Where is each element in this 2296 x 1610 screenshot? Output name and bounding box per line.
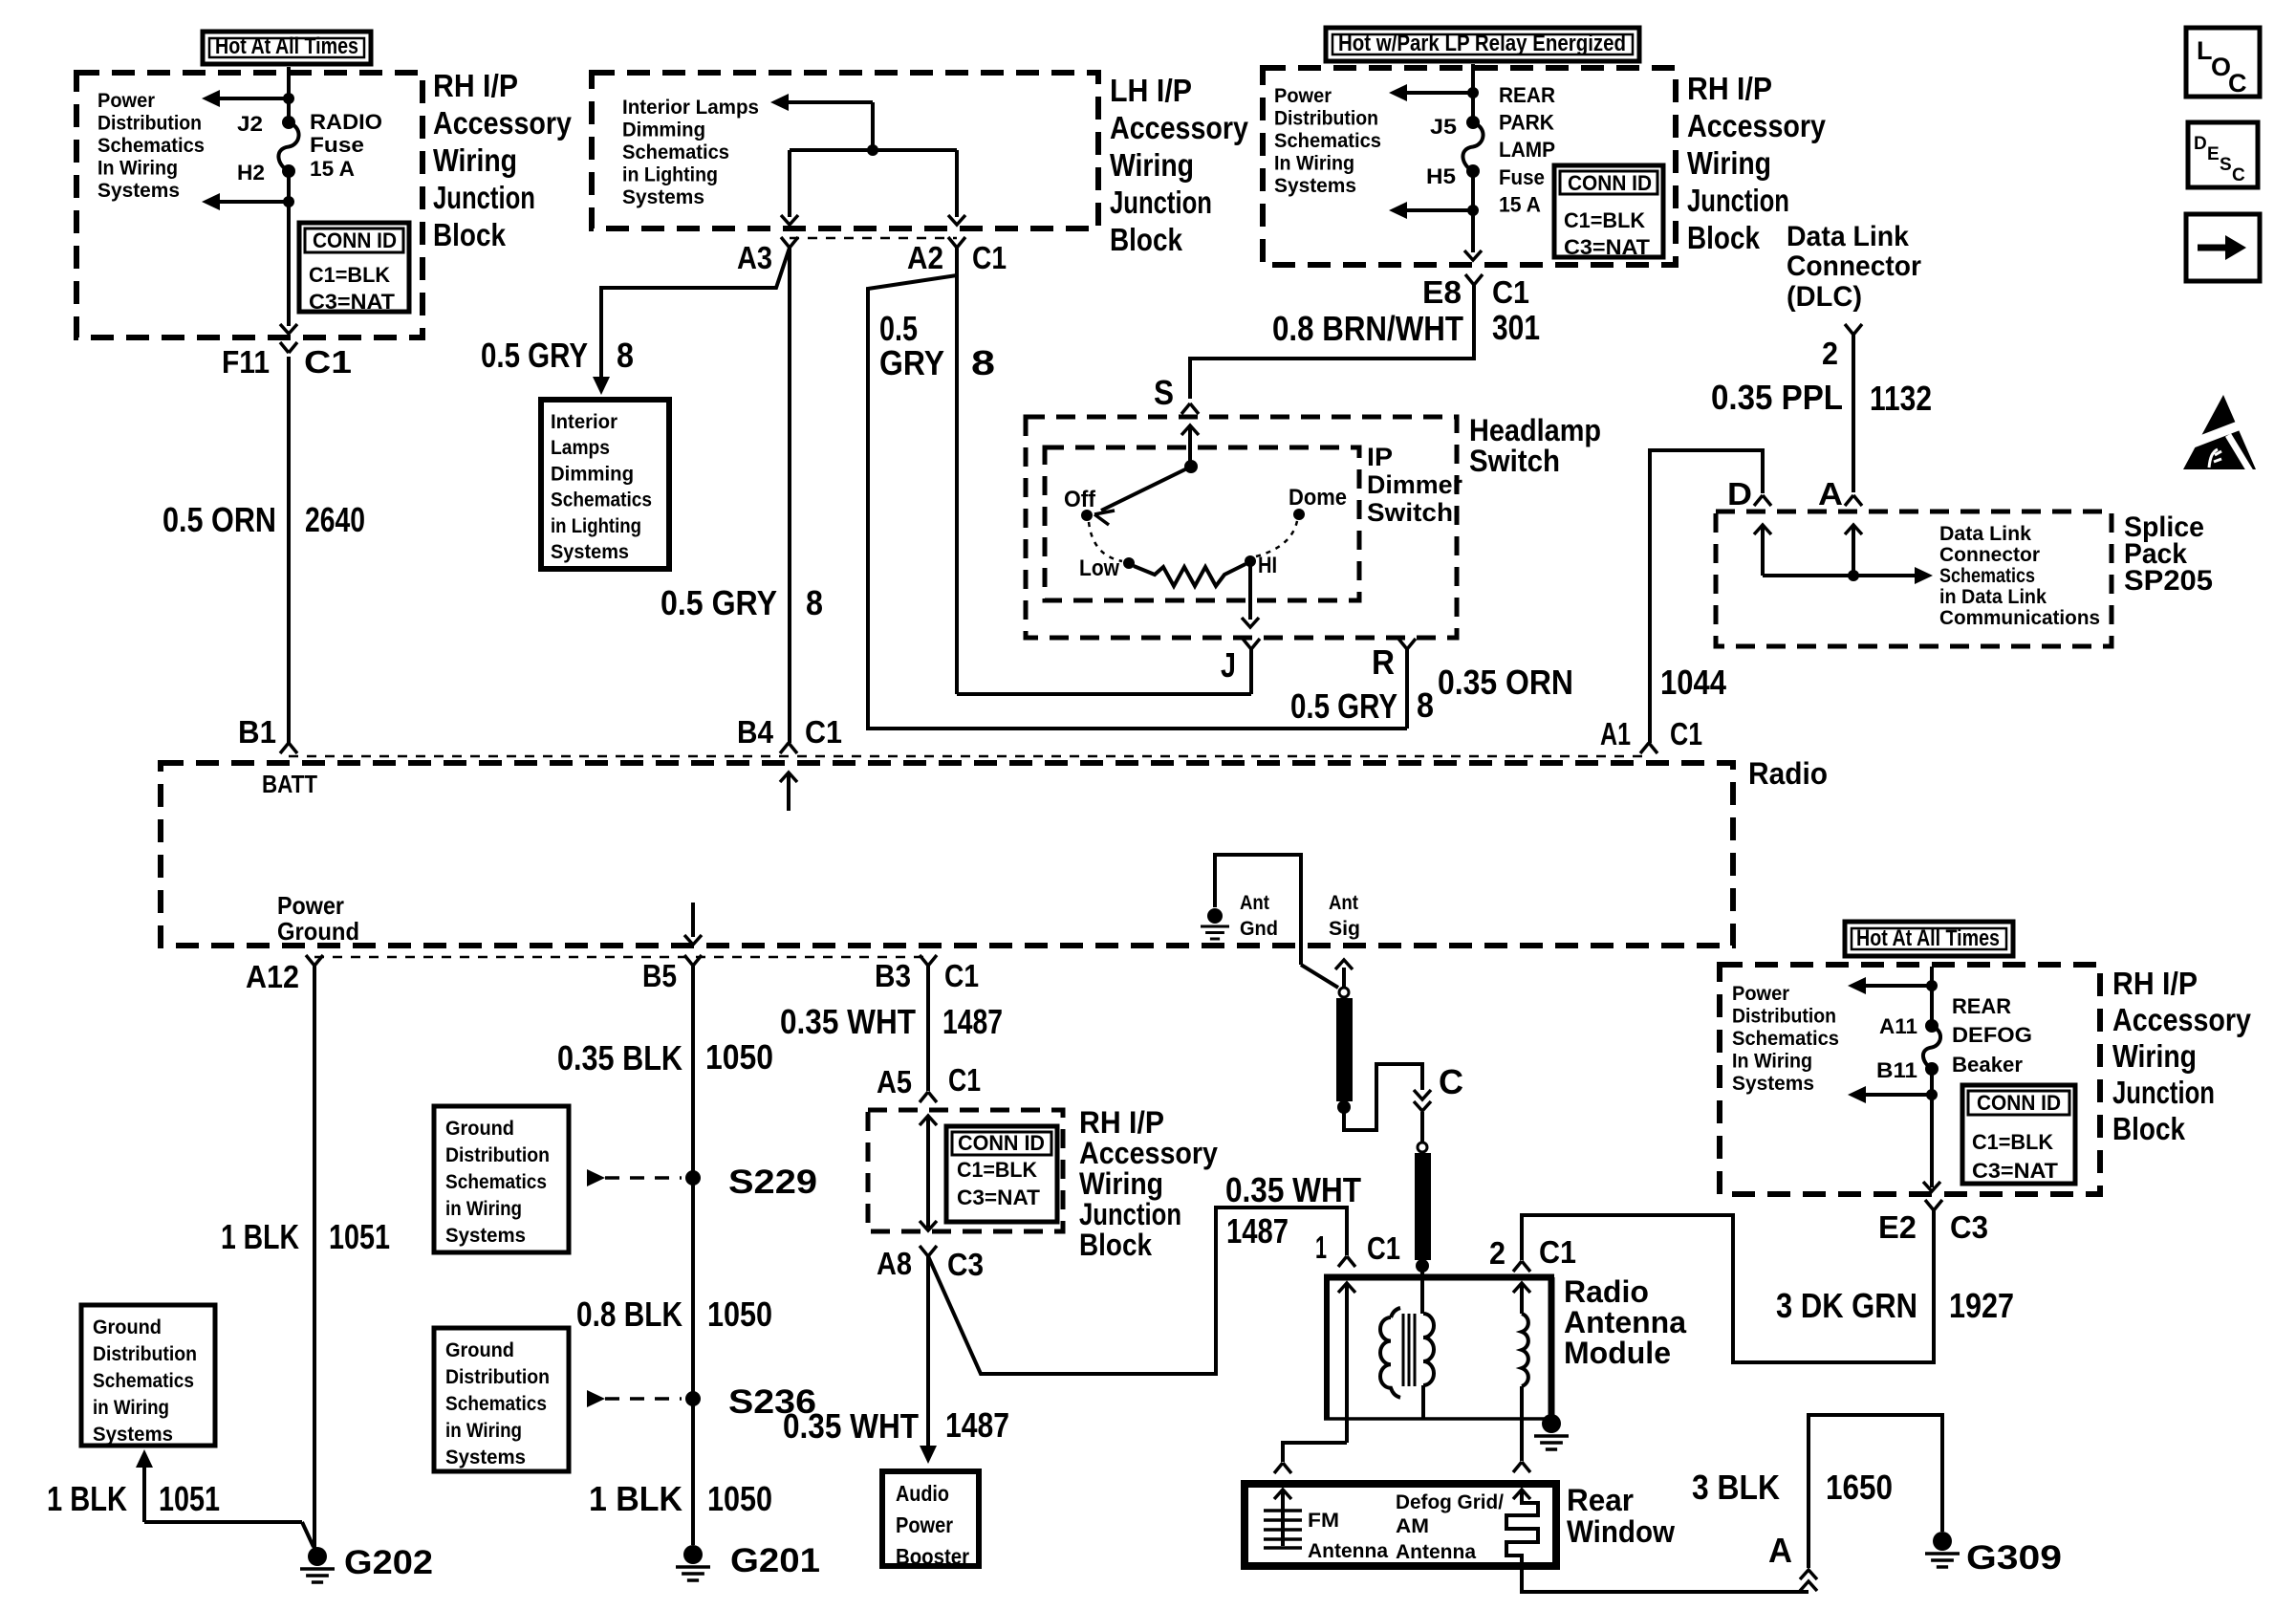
svg-text:C1: C1: [304, 344, 352, 380]
svg-text:Block: Block: [433, 217, 507, 252]
svg-text:A1: A1: [1600, 716, 1631, 751]
connector 1 C1 (radio antenna module): [1338, 1256, 1347, 1267]
connector A2 C1: [948, 237, 957, 248]
svg-text:Schematics: Schematics: [1939, 565, 2035, 587]
svg-text:RADIO: RADIO: [310, 110, 382, 134]
defog grid element: [1513, 1490, 1530, 1499]
IP dimmer switch inner dashed box: [1045, 447, 1359, 600]
svg-text:Accessory: Accessory: [1079, 1136, 1218, 1170]
wire coax 2 into radio antenna module: [1420, 1266, 1424, 1314]
svg-text:Distribution: Distribution: [93, 1343, 197, 1365]
svg-text:H2: H2: [237, 161, 265, 185]
svg-text:J: J: [1221, 645, 1236, 685]
svg-text:1051: 1051: [329, 1217, 390, 1256]
terminal Low: [1123, 557, 1135, 569]
svg-text:C3=NAT: C3=NAT: [309, 290, 396, 314]
svg-text:(DLC): (DLC): [1787, 281, 1862, 313]
svg-text:RH I/P: RH I/P: [433, 68, 518, 103]
svg-text:BATT: BATT: [262, 770, 317, 798]
fuse: REAR PARK LAMP Fuse 15 A: [1466, 116, 1480, 129]
svg-text:G202: G202: [344, 1544, 433, 1581]
connector A5 C1: [920, 1092, 928, 1102]
svg-text:0.8 BRN/WHT: 0.8 BRN/WHT: [1272, 309, 1463, 348]
svg-text:Ground: Ground: [93, 1316, 162, 1338]
header box: Hot At All Times (left): [203, 32, 371, 64]
svg-text:Radio: Radio: [1748, 756, 1828, 791]
svg-text:Ground: Ground: [277, 917, 359, 946]
svg-text:D: D: [1727, 476, 1752, 511]
svg-text:1050: 1050: [705, 1037, 773, 1077]
radio dashed box: [161, 763, 1733, 946]
svg-text:E8: E8: [1422, 274, 1462, 310]
svg-text:1487: 1487: [942, 1002, 1003, 1041]
wiper junction node: [1184, 460, 1198, 473]
svg-text:1487: 1487: [1226, 1211, 1289, 1251]
svg-text:C3: C3: [947, 1247, 984, 1282]
svg-text:1487: 1487: [945, 1405, 1009, 1445]
connector 2 C1 (antenna module to rear defog): [1513, 1261, 1522, 1272]
svg-text:0.35 ORN: 0.35 ORN: [1438, 663, 1573, 702]
svg-text:C3=NAT: C3=NAT: [1564, 235, 1651, 259]
arrow to Power Distribution (top left): [220, 97, 289, 100]
svg-text:0.5 GRY: 0.5 GRY: [661, 583, 777, 622]
svg-text:Systems: Systems: [445, 1447, 526, 1469]
svg-text:A11: A11: [1879, 1014, 1917, 1038]
wire: Ant Sig diagonal to coax: [1301, 965, 1338, 988]
svg-text:Data Link: Data Link: [1787, 221, 1909, 252]
svg-text:C1=BLK: C1=BLK: [309, 263, 390, 287]
entry arrow below 2 C1 / wire to coil: [1513, 1283, 1530, 1293]
svg-text:Power: Power: [1732, 983, 1789, 1005]
svg-text:Fuse: Fuse: [1499, 165, 1545, 189]
svg-text:in Lighting: in Lighting: [551, 515, 641, 537]
svg-text:Fuse: Fuse: [310, 133, 364, 157]
RH I/P accessory junction block (defog) dashed box: [1720, 965, 2100, 1194]
splice S229: [685, 1170, 701, 1186]
RH I/P accessory junction block (park lamp) dashed box: [1263, 68, 1676, 265]
svg-text:CONN ID: CONN ID: [1977, 1091, 2061, 1115]
svg-text:Systems: Systems: [93, 1424, 173, 1446]
svg-text:in Wiring: in Wiring: [445, 1198, 522, 1220]
wire: RADIO fuse feed vertical: [287, 67, 291, 122]
svg-text:Schematics: Schematics: [93, 1370, 194, 1392]
connector A1 C1 (radio): [1640, 743, 1649, 753]
svg-text:Distribution: Distribution: [97, 113, 202, 135]
entry arrow below 1 C1 / wire to FM antenna: [1338, 1283, 1355, 1293]
svg-text:CONN ID: CONN ID: [313, 228, 397, 252]
svg-text:0.5 GRY: 0.5 GRY: [1290, 686, 1397, 726]
svg-text:A2: A2: [907, 240, 943, 275]
svg-text:Schematics: Schematics: [622, 141, 729, 163]
Ant Gnd ground symbol: [1207, 908, 1223, 924]
svg-text:3 BLK: 3 BLK: [1692, 1468, 1780, 1507]
svg-text:1 BLK: 1 BLK: [47, 1479, 127, 1518]
wire: A12 to G202 (1 BLK 1051): [313, 966, 316, 1549]
icon: forward arrow: [2186, 214, 2260, 281]
wire: defog grid to A (3 BLK 1650): [1522, 1570, 1809, 1592]
wire bridge between A3 and A2 risers: [790, 148, 957, 152]
svg-text:1050: 1050: [707, 1479, 772, 1518]
connector E2 C3: [1925, 1200, 1934, 1210]
svg-text:A5: A5: [877, 1064, 912, 1099]
svg-text:Wiring: Wiring: [1110, 147, 1194, 183]
svg-text:C1=BLK: C1=BLK: [957, 1158, 1037, 1182]
CONN ID table (left): [299, 223, 409, 312]
arrow left (defog bottom): [1860, 1093, 1932, 1097]
svg-text:Gnd: Gnd: [1240, 918, 1278, 940]
svg-text:0.5: 0.5: [879, 309, 918, 348]
svg-text:C1: C1: [944, 958, 979, 993]
connector A (splice pack): [1845, 495, 1853, 506]
svg-text:C3=NAT: C3=NAT: [957, 1186, 1041, 1209]
svg-text:Low: Low: [1079, 555, 1119, 581]
reference box: Interior Lamps Dimming Schematics in Lighting Systems: [541, 400, 669, 569]
svg-text:Junction: Junction: [433, 180, 535, 215]
svg-text:Block: Block: [1110, 222, 1183, 257]
svg-text:LH I/P: LH I/P: [1110, 73, 1192, 108]
wire: 0.5 ORN 2640 from F11 to radio B1: [287, 357, 291, 743]
terminal HI: [1245, 555, 1256, 567]
svg-text:0.35 PPL: 0.35 PPL: [1711, 378, 1843, 417]
svg-text:Dimming: Dimming: [551, 463, 634, 485]
wire: 3 DK GRN 1927 from E2 to antenna module: [1522, 1210, 1934, 1362]
svg-text:Dimmer: Dimmer: [1367, 470, 1462, 499]
svg-text:Distribution: Distribution: [1732, 1006, 1836, 1028]
svg-text:CONN ID: CONN ID: [958, 1131, 1045, 1155]
wire: A8 to audio power booster: [926, 1256, 930, 1446]
circuit breaker: REAR DEFOG: [1925, 1019, 1939, 1033]
svg-text:in Wiring: in Wiring: [93, 1397, 169, 1419]
svg-text:Power: Power: [896, 1512, 953, 1537]
svg-text:DEFOG: DEFOG: [1952, 1023, 2032, 1047]
connector (defog grid): [1513, 1462, 1522, 1472]
junction node in dimming block: [867, 144, 878, 156]
svg-text:Block: Block: [1079, 1228, 1152, 1262]
svg-text:Ground: Ground: [445, 1339, 514, 1361]
arrow left (defog top): [1860, 984, 1932, 988]
svg-text:Systems: Systems: [97, 180, 180, 202]
svg-text:15 A: 15 A: [310, 157, 355, 181]
svg-text:HI: HI: [1258, 553, 1277, 578]
exit arrow to E8: [1471, 212, 1475, 252]
arrow left (park bottom): [1401, 208, 1473, 212]
terminal Dome: [1293, 509, 1305, 520]
RH I/P accessory junction block (left) dashed box: [76, 73, 422, 337]
svg-text:1050: 1050: [707, 1295, 772, 1334]
svg-text:in Lighting: in Lighting: [622, 164, 718, 186]
svg-text:C1: C1: [805, 714, 842, 750]
svg-text:Schematics: Schematics: [1732, 1028, 1839, 1050]
svg-text:B11: B11: [1876, 1058, 1917, 1082]
svg-text:Antenna: Antenna: [1308, 1540, 1388, 1562]
wire: B5 to G201 (1050): [691, 966, 695, 1545]
icon: LOC: [2186, 28, 2260, 97]
svg-text:0.5 ORN: 0.5 ORN: [162, 500, 276, 539]
arrow to Power Distribution (bottom left): [220, 200, 289, 204]
A3 riser with exit arrow: [788, 150, 791, 217]
svg-text:Power: Power: [277, 891, 344, 920]
svg-text:RH I/P: RH I/P: [1687, 71, 1772, 106]
svg-text:Systems: Systems: [1274, 175, 1356, 197]
connector face line C1 (A3-A2): [790, 237, 957, 240]
svg-text:1132: 1132: [1870, 379, 1932, 418]
exit arrow to E2: [1923, 1182, 1940, 1191]
header box: Hot w/Park LP Relay Energized: [1326, 28, 1639, 61]
wire: 0.35 PPL 1132 from DLC to splice pack A: [1852, 335, 1855, 492]
svg-text:Switch: Switch: [1367, 498, 1453, 527]
reference box: Ground Distribution Schematics in Wiring Systems (G202): [81, 1305, 215, 1446]
svg-text:Radio: Radio: [1564, 1274, 1649, 1309]
module ground (bottom right corner): [1542, 1414, 1561, 1433]
svg-text:B4: B4: [737, 714, 774, 750]
connector E8 C1: [1465, 274, 1474, 285]
junction block pass-through wire: [920, 1116, 937, 1125]
svg-text:8: 8: [971, 343, 995, 382]
svg-text:C3: C3: [1950, 1209, 1988, 1245]
svg-text:Off: Off: [1064, 487, 1096, 512]
svg-text:Module: Module: [1564, 1336, 1671, 1370]
splice S236: [685, 1391, 701, 1406]
svg-text:3 DK GRN: 3 DK GRN: [1776, 1286, 1917, 1325]
svg-text:Connector: Connector: [1939, 544, 2040, 566]
junction node (park bottom): [1467, 205, 1479, 216]
connector J: [1243, 639, 1251, 649]
svg-text:B3: B3: [875, 958, 911, 993]
svg-text:15 A: 15 A: [1499, 192, 1541, 216]
svg-text:Junction: Junction: [1079, 1197, 1181, 1231]
svg-text:Junction: Junction: [2112, 1075, 2215, 1110]
dashed arc Off to Low: [1089, 522, 1122, 561]
svg-text:2640: 2640: [305, 500, 365, 539]
svg-text:C: C: [1439, 1062, 1463, 1101]
svg-text:C1: C1: [1539, 1234, 1576, 1270]
svg-text:Accessory: Accessory: [433, 105, 573, 141]
radio antenna module box: [1324, 1274, 1554, 1281]
svg-text:Headlamp: Headlamp: [1469, 413, 1601, 447]
svg-text:Junction: Junction: [1110, 185, 1212, 220]
svg-text:Defog Grid/: Defog Grid/: [1396, 1491, 1504, 1513]
connector 2 (DLC): [1845, 324, 1853, 335]
svg-text:8: 8: [617, 336, 634, 375]
svg-text:PARK: PARK: [1499, 111, 1554, 135]
svg-text:Power: Power: [97, 90, 155, 112]
svg-text:Sig: Sig: [1329, 918, 1360, 940]
svg-text:C1: C1: [972, 240, 1007, 275]
connector D (splice pack): [1754, 495, 1763, 506]
svg-text:Booster: Booster: [896, 1544, 969, 1569]
wire from coax 1 to connector C: [1344, 1064, 1422, 1130]
connector A3: [781, 237, 790, 248]
connector F11 C1: [280, 324, 297, 334]
svg-text:0.35 WHT: 0.35 WHT: [780, 1002, 916, 1041]
wiper arrow to Off: [1101, 467, 1191, 511]
svg-text:Accessory: Accessory: [1687, 108, 1827, 143]
wire: 0.8 BRN/WHT 301 from E8 to headlamp switch S: [1190, 285, 1474, 399]
svg-text:IP: IP: [1367, 443, 1393, 471]
ground G202: [308, 1547, 327, 1566]
svg-text:S229: S229: [728, 1164, 817, 1201]
svg-text:Schematics: Schematics: [1274, 130, 1381, 152]
svg-text:Schematics: Schematics: [97, 135, 205, 157]
fuse: RADIO Fuse 15 A: [282, 116, 295, 129]
wire: rear defog feed: [1930, 967, 1934, 1026]
coax shield segment 1 (antenna lead-in): [1339, 988, 1349, 997]
svg-text:Hot At All Times: Hot At All Times: [215, 33, 358, 59]
svg-text:Dimming: Dimming: [622, 120, 705, 141]
junction node (defog top): [1926, 980, 1938, 991]
connector A (rear defog harness): [1800, 1570, 1817, 1579]
svg-text:Window: Window: [1567, 1514, 1675, 1549]
svg-text:Schematics: Schematics: [445, 1393, 547, 1415]
svg-text:Junction: Junction: [1687, 183, 1789, 218]
svg-text:301: 301: [1492, 308, 1540, 347]
svg-text:D: D: [2194, 134, 2207, 154]
LH I/P junction block dashed box (interior lamps dimming): [592, 73, 1098, 228]
svg-text:1051: 1051: [159, 1479, 220, 1518]
junction node (defog bottom): [1926, 1089, 1938, 1100]
svg-text:Connector: Connector: [1787, 250, 1921, 282]
connector B1 (radio BATT): [280, 743, 289, 753]
svg-text:Dome: Dome: [1289, 485, 1347, 511]
svg-text:2: 2: [1822, 336, 1838, 371]
svg-text:Switch: Switch: [1469, 444, 1560, 478]
dashed arc HI to Dome: [1256, 521, 1297, 556]
svg-text:0.35 WHT: 0.35 WHT: [1225, 1170, 1361, 1209]
connector B5 (radio): [684, 955, 693, 966]
svg-text:C: C: [2232, 165, 2245, 185]
RH I/P junction block (middle) dashed box: [868, 1110, 1063, 1231]
svg-text:R: R: [1372, 642, 1395, 682]
wire: 0.5 GRY 8 drop to interior lamps schematics box: [601, 248, 790, 379]
svg-text:B1: B1: [238, 714, 276, 750]
svg-text:C: C: [2228, 69, 2247, 98]
svg-text:Block: Block: [1687, 220, 1761, 255]
junction node on fuse feed (bottom): [283, 196, 294, 207]
wire: A2 branch to R: [868, 275, 1407, 729]
svg-text:E: E: [2207, 144, 2220, 164]
svg-text:REAR: REAR: [1952, 994, 2011, 1018]
svg-text:In Wiring: In Wiring: [1732, 1051, 1812, 1073]
reference box: Ground Distribution Schematics (S236): [434, 1328, 569, 1471]
svg-text:Schematics: Schematics: [551, 490, 652, 511]
terminal Off: [1081, 510, 1093, 521]
svg-text:Interior Lamps: Interior Lamps: [622, 97, 759, 119]
svg-text:Antenna: Antenna: [1396, 1541, 1476, 1563]
ground G201: [683, 1545, 703, 1564]
wire: A1 C1 to D (0.35 ORN 1044): [1650, 450, 1763, 743]
svg-text:Wiring: Wiring: [2112, 1038, 2197, 1074]
connector A8 C3: [920, 1246, 928, 1256]
svg-text:Accessory: Accessory: [1110, 110, 1249, 145]
svg-text:S: S: [1154, 373, 1174, 412]
wire: A8 branch to radio antenna module 1 C1 (0.35 WHT 1487): [928, 1207, 1347, 1374]
svg-text:J2: J2: [237, 112, 263, 136]
entry arrow below D: [1754, 525, 1771, 534]
wire: coil through box to defog grid: [1520, 1386, 1524, 1461]
svg-text:Beaker: Beaker: [1952, 1053, 2023, 1077]
svg-text:Distribution: Distribution: [1274, 108, 1378, 130]
svg-text:0.35 BLK: 0.35 BLK: [557, 1038, 682, 1077]
wire: A2 to J (0.5 GRY 8): [955, 248, 959, 694]
dashed splice wire to S229: [587, 1169, 605, 1186]
svg-text:A: A: [1768, 1531, 1792, 1570]
entry arrow below A: [1845, 525, 1862, 534]
splice pack SP205 dashed box: [1716, 511, 2112, 646]
svg-text:G201: G201: [730, 1542, 820, 1579]
svg-text:J5: J5: [1430, 115, 1457, 139]
svg-text:S: S: [2220, 155, 2232, 175]
svg-text:C3=NAT: C3=NAT: [1972, 1159, 2059, 1183]
svg-text:A3: A3: [737, 240, 772, 275]
svg-text:Distribution: Distribution: [445, 1144, 550, 1166]
svg-text:Accessory: Accessory: [2112, 1002, 2252, 1037]
svg-text:Lamps: Lamps: [551, 437, 610, 459]
entry arrow from S: [1181, 425, 1199, 435]
junction node on fuse feed (top): [283, 93, 294, 104]
reference box: Audio Power Booster: [882, 1471, 979, 1566]
svg-text:S236: S236: [728, 1383, 816, 1421]
svg-text:Systems: Systems: [622, 186, 704, 208]
connector B4 C1 (radio): [780, 743, 789, 753]
svg-text:E2: E2: [1878, 1209, 1917, 1245]
svg-text:H5: H5: [1426, 164, 1456, 188]
svg-text:A12: A12: [246, 959, 299, 994]
svg-text:Systems: Systems: [1732, 1073, 1814, 1095]
svg-text:REAR: REAR: [1499, 83, 1555, 107]
arrow to Interior Lamps: [770, 94, 789, 111]
splice junction node: [1848, 570, 1859, 581]
connector B3 C1 (radio): [920, 955, 928, 966]
svg-text:LAMP: LAMP: [1499, 138, 1555, 162]
svg-text:AM: AM: [1396, 1515, 1429, 1537]
header box: Hot At All Times (right): [1845, 922, 2013, 956]
wire: FM antenna feed: [1283, 1443, 1347, 1462]
svg-text:Ant: Ant: [1329, 892, 1358, 914]
radio connector face line C1 (top): [289, 755, 1649, 758]
svg-text:Wiring: Wiring: [433, 142, 517, 178]
svg-text:Interior: Interior: [551, 411, 617, 433]
wire: 3 BLK 1650 to G309: [1809, 1415, 1942, 1568]
svg-text:Audio: Audio: [896, 1481, 949, 1506]
splice wire with arrow to schematics: [1763, 574, 1919, 577]
connector C (coax inline): [1414, 1090, 1431, 1099]
svg-text:GRY: GRY: [879, 343, 944, 382]
wire: ground distribution to G202: [136, 1449, 153, 1468]
svg-text:1 BLK: 1 BLK: [221, 1217, 299, 1256]
svg-text:CONN ID: CONN ID: [1568, 171, 1652, 195]
wire: B3 to A5 (0.35 WHT 1487): [926, 965, 930, 1091]
svg-text:0.5 GRY: 0.5 GRY: [481, 336, 588, 375]
svg-text:1 BLK: 1 BLK: [589, 1479, 682, 1518]
svg-text:B5: B5: [642, 958, 677, 993]
svg-text:1927: 1927: [1949, 1286, 2014, 1325]
connector A12 (radio): [306, 955, 314, 966]
svg-text:FM: FM: [1308, 1510, 1339, 1532]
headlamp switch outer dashed box: [1026, 417, 1457, 638]
svg-text:1650: 1650: [1826, 1468, 1893, 1507]
svg-text:C1: C1: [1670, 716, 1702, 751]
entry arrow below B4: [780, 772, 797, 782]
svg-text:C1=BLK: C1=BLK: [1564, 208, 1645, 232]
svg-text:Rear: Rear: [1567, 1483, 1634, 1517]
svg-text:Wiring: Wiring: [1079, 1166, 1163, 1201]
svg-text:8: 8: [806, 583, 823, 622]
svg-text:0.8 BLK: 0.8 BLK: [576, 1295, 682, 1334]
wire: HI to J with exit arrow: [1248, 566, 1252, 620]
svg-text:In Wiring: In Wiring: [97, 158, 178, 180]
svg-text:Wiring: Wiring: [1687, 145, 1771, 181]
svg-text:8: 8: [1417, 685, 1434, 725]
